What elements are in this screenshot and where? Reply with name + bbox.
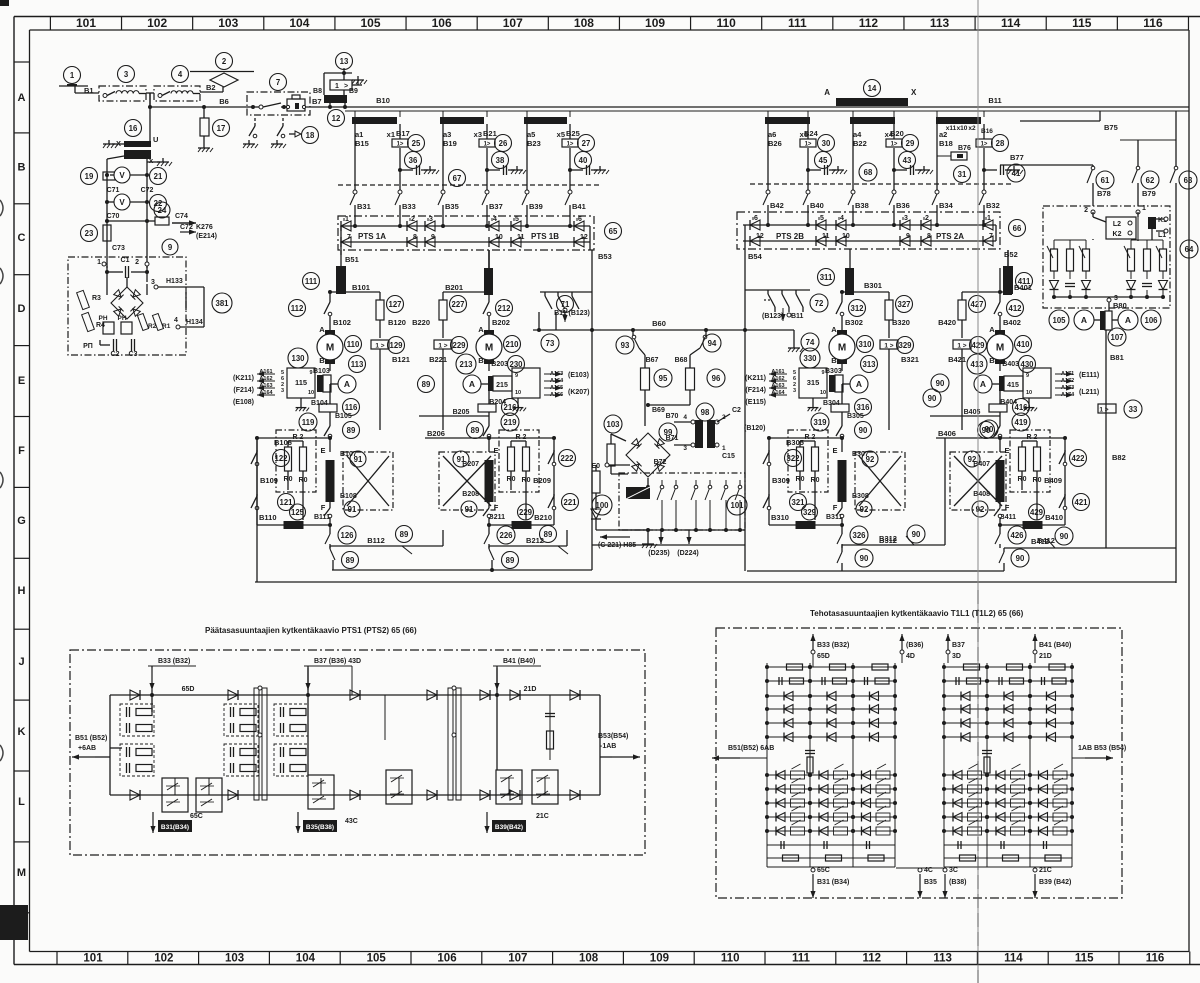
svg-text:R1: R1	[162, 323, 171, 330]
svg-text:B206: B206	[427, 429, 445, 438]
svg-text:B53(B54): B53(B54)	[598, 733, 628, 740]
svg-text:PTS 2B: PTS 2B	[776, 232, 804, 241]
svg-text:105: 105	[367, 953, 387, 965]
svg-text:43C: 43C	[345, 818, 358, 825]
svg-text:A166: A166	[550, 392, 563, 398]
svg-text:a6: a6	[768, 130, 776, 139]
svg-text:B408: B408	[973, 491, 990, 498]
svg-text:103: 103	[225, 953, 244, 965]
svg-text:23: 23	[85, 229, 94, 238]
svg-text:PTS 2A: PTS 2A	[936, 232, 964, 241]
svg-text:B21: B21	[483, 129, 497, 138]
svg-text:17: 17	[217, 124, 226, 133]
svg-text:73: 73	[546, 339, 555, 348]
svg-text:1: 1	[70, 71, 75, 80]
svg-text:M: M	[996, 343, 1004, 354]
svg-text:B: B	[18, 162, 26, 174]
svg-text:5: 5	[515, 216, 519, 223]
svg-text:98: 98	[701, 408, 710, 417]
svg-text:a4: a4	[853, 130, 862, 139]
svg-text:V: V	[119, 171, 125, 180]
svg-text:(E214): (E214)	[196, 233, 217, 240]
svg-text:327: 327	[897, 300, 910, 309]
svg-text:229: 229	[519, 508, 533, 517]
svg-text:R3: R3	[92, 295, 101, 302]
svg-text:B51 (B52): B51 (B52)	[75, 735, 107, 742]
svg-text:219: 219	[503, 418, 517, 427]
svg-text:B53: B53	[598, 252, 612, 261]
svg-text:PH: PH	[117, 315, 126, 322]
svg-text:U: U	[153, 135, 158, 144]
svg-text:213: 213	[459, 360, 473, 369]
svg-text:K2: K2	[1113, 231, 1122, 238]
svg-text:C2: C2	[732, 407, 741, 414]
svg-text:A171: A171	[1061, 371, 1074, 377]
svg-text:L: L	[18, 796, 25, 808]
svg-text:1: 1	[97, 259, 101, 266]
svg-text:L2: L2	[1113, 221, 1121, 228]
svg-text:B221: B221	[429, 355, 447, 364]
svg-text:62: 62	[1146, 176, 1155, 185]
svg-text:РП: РП	[83, 343, 93, 350]
svg-text:B72: B72	[654, 459, 667, 466]
svg-text:104: 104	[296, 953, 316, 965]
svg-text:B310: B310	[771, 513, 789, 522]
svg-text:x3: x3	[474, 130, 482, 139]
svg-text:410: 410	[1016, 340, 1030, 349]
svg-text:B22: B22	[853, 139, 867, 148]
svg-text:3: 3	[124, 70, 129, 79]
svg-text:110: 110	[347, 340, 360, 349]
svg-text:2: 2	[222, 57, 227, 66]
svg-text:101: 101	[83, 953, 103, 965]
svg-text:10: 10	[495, 234, 503, 241]
svg-text:112: 112	[291, 304, 304, 313]
svg-text:B39(B42): B39(B42)	[495, 824, 523, 831]
svg-text:B51: B51	[345, 255, 359, 264]
svg-text:9: 9	[431, 234, 435, 241]
svg-text:101: 101	[730, 501, 744, 510]
svg-text:1: 1	[1142, 205, 1146, 212]
svg-text:B54: B54	[748, 252, 763, 261]
svg-text:227: 227	[451, 300, 464, 309]
svg-text:B31 (B34): B31 (B34)	[817, 879, 849, 886]
svg-text:B42: B42	[770, 201, 784, 210]
svg-text:9: 9	[906, 233, 910, 240]
svg-text:B15: B15	[355, 139, 369, 148]
svg-text:(B38): (B38)	[949, 879, 967, 886]
svg-text:7: 7	[276, 78, 280, 87]
svg-text:90: 90	[985, 425, 994, 434]
svg-text:A164: A164	[259, 390, 273, 396]
svg-text:66: 66	[1013, 224, 1022, 233]
svg-text:B78: B78	[1097, 189, 1111, 198]
svg-text:(E111): (E111)	[1079, 372, 1099, 379]
svg-text:B411: B411	[1000, 514, 1016, 521]
svg-text:65: 65	[609, 227, 618, 236]
svg-text:121: 121	[279, 498, 293, 507]
svg-text:422: 422	[1071, 454, 1085, 463]
svg-text:2: 2	[1084, 207, 1088, 214]
svg-text:316: 316	[856, 403, 870, 412]
svg-text:B410: B410	[1045, 513, 1063, 522]
svg-text:3: 3	[904, 215, 908, 222]
svg-text:415: 415	[1007, 382, 1019, 389]
svg-text:1: 1	[345, 216, 349, 223]
svg-text:R4: R4	[96, 322, 105, 329]
svg-text:106: 106	[432, 16, 452, 30]
svg-text:C15: C15	[722, 453, 735, 460]
svg-text:A173: A173	[1061, 385, 1074, 391]
svg-text:102: 102	[154, 953, 173, 965]
svg-text:33: 33	[1129, 405, 1138, 414]
svg-text:B6: B6	[219, 97, 229, 106]
svg-text:D: D	[18, 303, 26, 315]
svg-text:B112: B112	[367, 536, 385, 545]
svg-text:45: 45	[819, 156, 828, 165]
svg-text:1>: 1>	[484, 142, 491, 148]
svg-text:216: 216	[503, 403, 517, 412]
svg-text:108: 108	[579, 953, 599, 965]
svg-text:90: 90	[928, 394, 937, 403]
svg-text:x5: x5	[557, 130, 565, 139]
svg-text:4: 4	[683, 414, 687, 421]
svg-text:1 >: 1 >	[1099, 407, 1108, 414]
svg-text:x10: x10	[957, 125, 968, 132]
svg-text:A172: A172	[1061, 378, 1074, 384]
svg-text:B: B	[478, 356, 484, 365]
svg-text:H133: H133	[166, 278, 183, 285]
svg-text:110: 110	[721, 953, 740, 965]
svg-text:1>: 1>	[567, 142, 574, 148]
svg-text:90: 90	[912, 530, 921, 539]
svg-text:4D: 4D	[906, 653, 915, 660]
svg-text:109: 109	[645, 16, 665, 30]
svg-text:B402: B402	[1003, 318, 1021, 327]
svg-text:x2: x2	[968, 125, 976, 132]
svg-text:412: 412	[1008, 304, 1022, 313]
svg-text:65D: 65D	[182, 686, 195, 693]
svg-text:C1: C1	[121, 257, 130, 264]
svg-text:89: 89	[422, 380, 431, 389]
svg-text:PTS 1A: PTS 1A	[358, 232, 386, 241]
svg-text:6: 6	[754, 215, 758, 222]
svg-text:B412: B412	[1031, 537, 1049, 546]
svg-text:3: 3	[793, 388, 796, 394]
svg-text:x11: x11	[946, 125, 957, 132]
svg-text:B9: B9	[349, 88, 358, 95]
svg-text:B106: B106	[274, 438, 292, 447]
svg-text:B35(B38): B35(B38)	[306, 824, 334, 831]
svg-text:31: 31	[958, 170, 967, 179]
svg-text:10: 10	[820, 390, 826, 396]
svg-text:91: 91	[354, 455, 363, 464]
svg-text:B70: B70	[666, 413, 679, 420]
svg-text:95: 95	[659, 374, 668, 383]
svg-text:92: 92	[866, 455, 875, 464]
svg-text:3: 3	[683, 445, 687, 452]
svg-text:B320: B320	[892, 318, 910, 327]
svg-text:116: 116	[345, 403, 358, 412]
svg-text:110: 110	[716, 16, 736, 30]
svg-text:329: 329	[898, 341, 912, 350]
svg-text:21C: 21C	[536, 813, 549, 820]
svg-text:19: 19	[85, 172, 94, 181]
svg-text:(F214): (F214)	[233, 387, 254, 394]
svg-text:C72: C72	[180, 224, 193, 231]
svg-text:113: 113	[930, 16, 950, 30]
svg-text:3C: 3C	[949, 867, 958, 874]
svg-text:B41: B41	[572, 202, 586, 211]
svg-text:92: 92	[968, 455, 977, 464]
svg-text:B: B	[319, 356, 325, 365]
svg-text:B71: B71	[666, 435, 679, 442]
svg-text:A161: A161	[771, 369, 784, 375]
svg-text:A: A	[831, 325, 837, 334]
svg-text:Tehotasasuuntaajien kytkentäka: Tehotasasuuntaajien kytkentäkaavio T1L1 …	[810, 609, 1024, 618]
svg-text:1 >: 1 >	[957, 343, 966, 350]
svg-text:63: 63	[1184, 176, 1193, 185]
svg-text:B205: B205	[453, 409, 470, 416]
svg-text:B37: B37	[489, 202, 503, 211]
svg-text:111: 111	[305, 277, 318, 286]
svg-text:B11: B11	[791, 313, 804, 320]
svg-text:B24: B24	[804, 129, 819, 138]
svg-text:107: 107	[1110, 333, 1123, 342]
svg-text:B120: B120	[388, 318, 406, 327]
svg-text:(L211): (L211)	[1079, 389, 1099, 396]
svg-text:381: 381	[215, 299, 229, 308]
svg-text:(B36): (B36)	[906, 642, 924, 649]
svg-text:(K211): (K211)	[745, 375, 766, 382]
svg-text:B34: B34	[939, 201, 954, 210]
svg-text:B312: B312	[879, 534, 897, 543]
svg-text:127: 127	[388, 300, 401, 309]
svg-text:12: 12	[756, 233, 764, 240]
svg-text:7: 7	[347, 234, 351, 241]
svg-text:(F214): (F214)	[745, 387, 766, 394]
svg-text:129: 129	[389, 341, 403, 350]
svg-text:E: E	[320, 446, 325, 455]
svg-text:B76: B76	[958, 145, 971, 152]
svg-text:B209: B209	[533, 476, 551, 485]
svg-text:91: 91	[457, 455, 466, 464]
svg-text:1>: 1>	[805, 142, 812, 148]
svg-text:B2: B2	[206, 83, 216, 92]
svg-text:114: 114	[1001, 16, 1021, 30]
svg-text:103: 103	[218, 16, 238, 30]
svg-text:93: 93	[621, 341, 630, 350]
svg-text:103: 103	[606, 420, 620, 429]
svg-text:2: 2	[411, 216, 415, 223]
svg-text:(D224): (D224)	[677, 550, 698, 557]
svg-text:A: A	[980, 379, 986, 389]
svg-text:A162: A162	[771, 376, 784, 382]
svg-text:B101: B101	[352, 283, 370, 292]
svg-text:94: 94	[708, 339, 717, 348]
svg-text:41: 41	[1012, 169, 1021, 178]
svg-text:A165: A165	[550, 385, 563, 391]
svg-text:8: 8	[413, 234, 417, 241]
svg-text:B52: B52	[1004, 250, 1018, 259]
svg-text:B102: B102	[333, 318, 351, 327]
svg-text:11: 11	[822, 233, 830, 240]
svg-text:E: E	[832, 446, 837, 455]
svg-text:65C: 65C	[190, 813, 203, 820]
svg-text:a3: a3	[443, 130, 451, 139]
svg-text:B303: B303	[825, 368, 842, 375]
svg-text:322: 322	[786, 454, 800, 463]
svg-text:C: C	[18, 232, 26, 244]
svg-text:416: 416	[1014, 403, 1028, 412]
svg-text:104: 104	[289, 16, 309, 30]
svg-text:B409: B409	[1044, 476, 1062, 485]
svg-text:16: 16	[129, 124, 138, 133]
svg-text:3: 3	[429, 216, 433, 223]
svg-text:B40: B40	[810, 201, 824, 210]
svg-text:B39: B39	[529, 202, 543, 211]
svg-text:B67: B67	[646, 357, 659, 364]
svg-text:A: A	[469, 379, 475, 389]
svg-text:PH: PH	[98, 315, 107, 322]
svg-text:B41 (B40): B41 (B40)	[1039, 642, 1071, 649]
svg-text:9: 9	[1026, 373, 1029, 379]
svg-text:89: 89	[347, 426, 356, 435]
svg-text:K276: K276	[196, 224, 213, 231]
svg-text:B32: B32	[986, 201, 1000, 210]
svg-text:1 >: 1 >	[375, 343, 384, 350]
svg-text:96: 96	[712, 374, 721, 383]
svg-text:F: F	[833, 503, 838, 512]
svg-text:89: 89	[544, 530, 553, 539]
svg-text:B10: B10	[376, 96, 390, 105]
svg-text:(B120): (B120)	[744, 425, 765, 432]
svg-text:1: 1	[335, 83, 339, 90]
svg-text:12: 12	[332, 114, 341, 123]
svg-text:4: 4	[840, 215, 844, 222]
svg-text:90: 90	[860, 554, 869, 563]
svg-text:B305: B305	[847, 413, 864, 420]
svg-text:11: 11	[517, 234, 525, 241]
svg-text:>: >	[344, 83, 348, 90]
svg-text:221: 221	[563, 498, 577, 507]
svg-text:(K211): (K211)	[233, 375, 254, 382]
svg-text:M: M	[485, 343, 493, 354]
svg-text:411: 411	[1018, 277, 1031, 286]
svg-text:130: 130	[291, 354, 305, 363]
svg-text:K: K	[18, 726, 26, 738]
svg-text:C70: C70	[107, 213, 120, 220]
svg-text:4: 4	[178, 70, 183, 79]
svg-text:B31: B31	[357, 202, 371, 211]
svg-text:C73: C73	[112, 245, 125, 252]
svg-text:B7: B7	[312, 97, 322, 106]
svg-text:92: 92	[976, 505, 985, 514]
svg-text:F: F	[18, 445, 25, 457]
svg-text:112: 112	[859, 16, 879, 30]
svg-text:B201: B201	[445, 283, 463, 292]
svg-text:10: 10	[842, 233, 850, 240]
svg-text:226: 226	[499, 531, 513, 540]
svg-text:10: 10	[308, 390, 314, 396]
svg-text:426: 426	[1010, 531, 1024, 540]
svg-text:A163: A163	[550, 371, 563, 377]
svg-text:38: 38	[496, 156, 505, 165]
svg-text:B36: B36	[896, 201, 910, 210]
svg-text:(D235): (D235)	[648, 550, 669, 557]
svg-text:-1AB: -1AB	[600, 743, 616, 750]
svg-text:421: 421	[1074, 498, 1088, 507]
svg-text:27: 27	[582, 139, 591, 148]
svg-text:43: 43	[903, 156, 912, 165]
svg-text:311: 311	[820, 273, 833, 282]
svg-text:111: 111	[792, 953, 811, 965]
svg-text:C3: C3	[129, 351, 138, 358]
svg-text:108: 108	[574, 16, 594, 30]
svg-text:B20: B20	[890, 129, 904, 138]
svg-text:28: 28	[996, 139, 1005, 148]
svg-text:89: 89	[506, 556, 515, 565]
svg-text:102: 102	[147, 16, 167, 30]
svg-text:105: 105	[361, 16, 381, 30]
svg-text:A: A	[1125, 315, 1131, 325]
svg-text:116: 116	[1146, 953, 1165, 965]
svg-text:36: 36	[409, 156, 418, 165]
svg-text:B38: B38	[855, 201, 869, 210]
svg-text:x1: x1	[387, 130, 395, 139]
svg-text:B17: B17	[396, 129, 410, 138]
svg-text:B11 (B123): B11 (B123)	[554, 310, 590, 317]
svg-text:222: 222	[560, 454, 574, 463]
svg-text:B39 (B42): B39 (B42)	[1039, 879, 1071, 886]
svg-text:M: M	[838, 343, 846, 354]
svg-text:B75: B75	[1104, 123, 1118, 132]
svg-text:Päätasasuuntaajien kytkentäkaa: Päätasasuuntaajien kytkentäkaavio PTS1 (…	[205, 626, 417, 635]
svg-text:A162: A162	[259, 376, 272, 382]
svg-text:B23: B23	[527, 139, 541, 148]
svg-text:E: E	[493, 446, 498, 455]
svg-text:B33 (B32): B33 (B32)	[817, 642, 849, 649]
svg-text:4: 4	[493, 216, 497, 223]
svg-text:B82: B82	[1112, 453, 1126, 462]
svg-text:101: 101	[76, 16, 96, 30]
svg-text:A164: A164	[771, 390, 785, 396]
svg-text:2: 2	[135, 259, 139, 266]
svg-text:B208: B208	[462, 491, 479, 498]
svg-text:A: A	[478, 325, 484, 334]
svg-text:413: 413	[970, 360, 984, 369]
svg-text:A: A	[824, 88, 830, 97]
svg-text:312: 312	[850, 304, 864, 313]
svg-text:91: 91	[465, 505, 474, 514]
svg-text:74: 74	[806, 338, 815, 347]
svg-text:B41 (B40): B41 (B40)	[503, 658, 535, 665]
svg-text:B35: B35	[445, 202, 459, 211]
svg-text:115: 115	[1075, 953, 1094, 965]
svg-text:107: 107	[503, 16, 523, 30]
svg-text:C72: C72	[141, 187, 154, 194]
svg-text:H134: H134	[186, 319, 203, 326]
svg-text:125: 125	[291, 508, 305, 517]
svg-text:116: 116	[1143, 16, 1163, 30]
svg-text:89: 89	[400, 530, 409, 539]
svg-text:B69: B69	[652, 407, 665, 414]
svg-text:PTS 1B: PTS 1B	[531, 232, 559, 241]
svg-text:A: A	[989, 325, 995, 334]
svg-text:10: 10	[515, 390, 521, 396]
svg-text:a1: a1	[355, 130, 363, 139]
svg-text:109: 109	[650, 953, 669, 965]
